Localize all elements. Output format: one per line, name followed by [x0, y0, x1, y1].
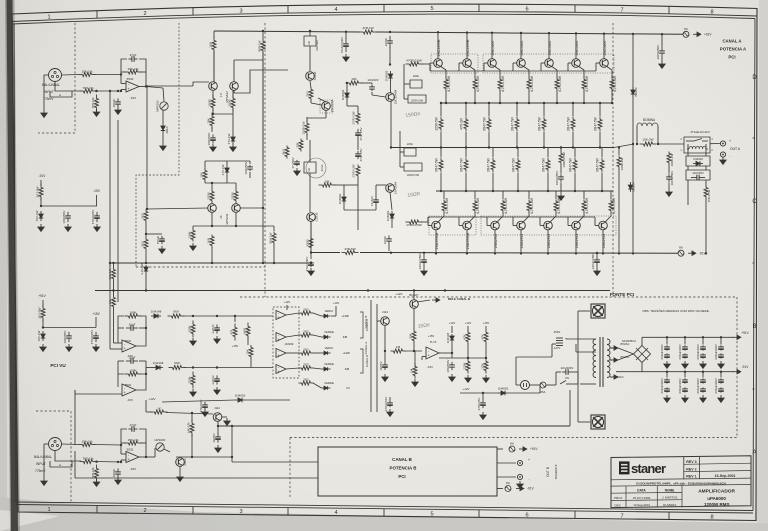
svg-text:1N4148: 1N4148	[446, 332, 450, 343]
diode 1N4002	[235, 399, 238, 401]
svg-text:AMPLIFICADOR: AMPLIFICADOR	[698, 488, 735, 494]
transistor 2SA1943 output PNP 6	[583, 212, 585, 216]
capacitor 47uF 25V	[357, 129, 359, 133]
svg-text:uPA6000: uPA6000	[707, 496, 726, 501]
svg-text:20KA: 20KA	[183, 458, 187, 465]
ground	[192, 338, 194, 341]
svg-text:220uF/250V: 220uF/250V	[418, 253, 422, 269]
wire vu B in	[74, 390, 76, 394]
svg-text:0R47-5W: 0R47-5W	[594, 117, 598, 130]
svg-text:4,7R-0,5W: 4,7R-0,5W	[476, 75, 480, 92]
input A PCI dashed box	[38, 23, 75, 133]
resistor 1M	[414, 364, 416, 367]
ground	[720, 395, 722, 398]
wire input hot B	[62, 443, 80, 446]
svg-text:OBS: TENSÕES MEDIDAS COM 250V: OBS: TENSÕES MEDIDAS COM 250V NA REDE.	[642, 308, 709, 313]
wire	[345, 32, 347, 39]
resistor 7K5-1%	[96, 95, 98, 99]
resistor 100K	[125, 373, 129, 375]
svg-text:100K: 100K	[188, 324, 192, 332]
svg-text:TL74: TL74	[430, 340, 437, 344]
wire input cold	[55, 82, 81, 92]
svg-text:+12V: +12V	[462, 387, 469, 391]
capacitor	[684, 387, 686, 389]
capacitor 220n/250V	[661, 43, 663, 51]
resistor 1K8	[211, 235, 213, 237]
svg-text:5: 5	[430, 511, 433, 517]
wire PNP base bus	[428, 216, 595, 218]
wire	[361, 82, 372, 84]
wire	[205, 160, 250, 162]
svg-text:CANAL B: CANAL B	[365, 355, 369, 367]
feedback box wire B	[121, 429, 127, 445]
svg-text:2 X: 2 X	[219, 93, 223, 97]
capacitor 220uF/250V	[423, 254, 425, 260]
diode BK954	[630, 182, 632, 185]
svg-text:0V: 0V	[346, 386, 350, 390]
grid tick right	[753, 388, 755, 390]
wire emitters	[212, 90, 214, 98]
wire VU feed B	[74, 390, 76, 445]
diode 1N4002	[498, 392, 501, 394]
resistor 470R-0,5W	[406, 63, 410, 65]
resistor 14K-1%	[113, 268, 115, 270]
resistor 2K2	[299, 352, 302, 354]
resistor 10K	[346, 82, 350, 84]
svg-text:+15V: +15V	[483, 321, 490, 325]
wire	[145, 445, 147, 457]
wire bc327	[413, 291, 415, 301]
svg-text:4,7R-0,5W: 4,7R-0,5W	[501, 75, 505, 92]
wire	[583, 191, 585, 199]
ground	[296, 168, 298, 171]
op-amp	[426, 347, 439, 359]
svg-text:8K8-1W: 8K8-1W	[258, 40, 262, 51]
capacitor	[720, 353, 722, 355]
svg-text:PCI: PCI	[728, 55, 735, 60]
resistor	[572, 117, 574, 120]
dashed separator right vertical	[736, 297, 738, 438]
wire	[313, 313, 322, 316]
wire	[139, 429, 146, 445]
wire base	[484, 62, 488, 64]
capacitor 100n/50V relay	[686, 170, 710, 180]
ground	[519, 481, 521, 484]
LED	[324, 386, 328, 390]
svg-text:47R-5W: 47R-5W	[344, 247, 355, 251]
wire	[482, 393, 484, 400]
capacitor 16v63V	[375, 196, 377, 200]
svg-text:2K: 2K	[219, 215, 223, 218]
resistor	[445, 78, 447, 80]
wire	[43, 327, 96, 329]
transistor	[232, 204, 241, 213]
LED	[324, 335, 328, 339]
svg-text:6K8: 6K8	[243, 328, 247, 334]
resistor 470R-0,5W	[406, 221, 410, 223]
terminal	[517, 474, 522, 479]
svg-text:BAL/UNBAL: BAL/UNBAL	[34, 455, 52, 459]
transistor 2SA1943 output PNP 4	[528, 212, 530, 216]
svg-text:2K2: 2K2	[303, 307, 309, 311]
svg-text:4,7R-0,5W: 4,7R-0,5W	[558, 75, 562, 92]
svg-text:1u/63V: 1u/63V	[211, 375, 215, 385]
capacitor	[684, 345, 686, 347]
resistor 7K5-1%	[80, 90, 84, 92]
ground	[96, 109, 98, 112]
wire	[113, 308, 115, 343]
svg-text:ON: ON	[565, 376, 569, 380]
wire +12V out	[460, 392, 498, 394]
svg-text:+15V: +15V	[428, 334, 435, 338]
svg-text:5532: 5532	[125, 339, 131, 343]
wire long y426	[218, 425, 570, 427]
wire	[286, 305, 288, 310]
wire	[528, 90, 530, 103]
resistor	[502, 200, 504, 202]
svg-text:15V-1W: 15V-1W	[37, 330, 41, 341]
wire	[113, 263, 115, 268]
wire op-amp inputs B	[120, 445, 122, 454]
svg-text:+91V: +91V	[704, 33, 712, 37]
capacitor	[702, 353, 704, 355]
svg-text:A1930: A1930	[313, 71, 317, 80]
svg-text:100R-2W: 100R-2W	[620, 157, 624, 170]
wire	[502, 191, 504, 199]
capacitor 100n/50V	[68, 332, 70, 336]
svg-text:1N4003: 1N4003	[385, 70, 389, 81]
svg-text:1N4148: 1N4148	[151, 309, 162, 313]
wire collector 2SC5200	[575, 33, 577, 58]
resistor	[547, 158, 549, 161]
resistor	[465, 117, 467, 120]
diode 1N4148	[451, 334, 453, 336]
capacitor 470(H)25V	[96, 212, 98, 216]
svg-text:8: 8	[710, 515, 713, 521]
resistor 1K	[113, 296, 115, 298]
svg-text:15K-1%: 15K-1%	[81, 439, 92, 443]
transistor 2SA1930B output PNP 2	[474, 212, 476, 216]
wire	[176, 456, 232, 458]
power arrow	[733, 336, 737, 338]
wire	[313, 352, 322, 354]
svg-text:2K7-5W: 2K7-5W	[38, 307, 42, 318]
svg-text:100n/50V: 100n/50V	[692, 171, 704, 175]
power arrow -91V	[516, 488, 520, 490]
svg-text:2K2: 2K2	[141, 241, 145, 247]
wire	[465, 103, 467, 116]
svg-text:1u/63V: 1u/63V	[211, 324, 215, 334]
capacitor 47pF	[128, 58, 132, 60]
amp PCI dashed separator	[264, 23, 266, 297]
svg-text:2SA1930B: 2SA1930B	[466, 232, 470, 249]
svg-text:6: 6	[525, 6, 528, 12]
input PCI dashed boundary	[136, 23, 179, 267]
wire	[390, 192, 392, 210]
svg-text:7: 7	[620, 7, 623, 13]
svg-text:BAL/UNBAL: BAL/UNBAL	[42, 83, 60, 87]
svg-text:4700uF/100V: 4700uF/100V	[696, 378, 700, 394]
wire	[217, 421, 219, 434]
svg-text:47pF: 47pF	[130, 423, 137, 427]
ground	[179, 474, 181, 477]
resistor 10K	[250, 346, 252, 348]
svg-text:10n/63V: 10n/63V	[367, 78, 378, 82]
svg-text:390R: 390R	[306, 239, 310, 247]
wire feedback left	[110, 262, 311, 264]
wire	[722, 156, 724, 159]
transistor	[434, 59, 443, 68]
title block line table row2	[611, 499, 682, 502]
wire	[309, 31, 311, 36]
diode 1N4148	[151, 315, 154, 317]
power arrow	[610, 359, 614, 361]
svg-text:2K2: 2K2	[303, 329, 309, 333]
wire	[474, 90, 476, 103]
resistor 2K7-5W	[42, 305, 44, 309]
grid tick top	[383, 4, 385, 11]
svg-text:150uF: 150uF	[156, 236, 160, 245]
svg-text:775mV: 775mV	[43, 97, 54, 101]
diode 47V-1W	[226, 166, 228, 168]
svg-text:1N4002: 1N4002	[341, 89, 345, 100]
wire base bias	[234, 70, 288, 93]
svg-text:+14dB: +14dB	[341, 315, 349, 318]
svg-text:PCI: PCI	[398, 474, 405, 479]
capacitor	[684, 378, 686, 380]
svg-text:J. MARTOS: J. MARTOS	[662, 496, 677, 500]
svg-text:PCI VU: PCI VU	[50, 363, 66, 368]
resistor 2K2	[145, 210, 147, 212]
svg-text:+: +	[729, 139, 731, 143]
wire	[465, 148, 467, 158]
resistor 33K	[413, 330, 415, 332]
svg-text:100n/50V: 100n/50V	[63, 331, 67, 344]
svg-text:100K: 100K	[188, 375, 192, 383]
wire	[583, 90, 585, 103]
svg-text:62K: 62K	[463, 333, 467, 339]
wire	[467, 343, 469, 358]
svg-text:OFFSET: OFFSET	[315, 39, 319, 50]
svg-text:J112: J112	[214, 406, 220, 410]
wire	[488, 103, 490, 116]
transistor 20KA	[176, 458, 185, 467]
capacitor 470(H)63V	[389, 401, 391, 403]
svg-text:1M: 1M	[410, 368, 414, 373]
wire	[451, 342, 453, 358]
title block line rev3	[684, 463, 751, 464]
wire	[232, 461, 318, 463]
svg-text:1K8: 1K8	[209, 42, 213, 48]
diode 15V-1W	[40, 211, 42, 214]
svg-text:0R47-5W: 0R47-5W	[567, 117, 571, 130]
svg-text:10K: 10K	[351, 77, 357, 81]
capacitor 1u/63V	[216, 375, 218, 379]
wire	[309, 140, 311, 162]
capacitor 100n/50V	[212, 134, 214, 138]
svg-text:+12V: +12V	[284, 300, 291, 304]
wire	[400, 151, 404, 153]
wire	[145, 222, 147, 238]
wire tail	[212, 108, 214, 114]
wire	[465, 173, 467, 191]
svg-text:0R47-5W: 0R47-5W	[487, 158, 491, 171]
svg-text:REV 3: REV 3	[686, 460, 696, 464]
ground	[212, 144, 214, 147]
svg-text:2SC3246B: 2SC3246B	[394, 90, 398, 105]
svg-text:2SA1984: 2SA1984	[394, 182, 398, 195]
transistor	[517, 221, 526, 230]
capacitor 4700uF/100V top 2	[684, 337, 686, 344]
ground	[117, 107, 119, 110]
resistor	[601, 158, 603, 161]
offset trim box 1K	[304, 36, 316, 46]
power arrow	[733, 371, 737, 373]
grid tick bottom	[383, 509, 385, 517]
grid tick top	[668, 6, 670, 14]
ground	[43, 110, 45, 113]
wire	[313, 368, 322, 369]
resistor	[357, 112, 359, 114]
wire emitter	[552, 66, 557, 70]
svg-text:2K2: 2K2	[141, 213, 145, 219]
wire	[298, 334, 300, 336]
svg-text:47K: 47K	[230, 328, 234, 334]
capacitor 220pF	[389, 36, 391, 41]
resistor	[357, 165, 359, 167]
wire	[95, 90, 121, 92]
ground	[42, 344, 44, 347]
svg-text:10K: 10K	[246, 348, 250, 354]
wire	[44, 443, 49, 445]
svg-text:775mV: 775mV	[35, 469, 46, 473]
svg-text:SPEAKER B: SPEAKER B	[554, 464, 558, 479]
ground	[485, 375, 487, 378]
svg-text:POTENCIA B: POTENCIA B	[390, 466, 417, 471]
right inner frame line	[753, 19, 755, 511]
svg-text:5532: 5532	[125, 383, 131, 387]
transistor 2SC5048	[322, 102, 331, 111]
svg-text:+: +	[528, 458, 530, 462]
wire	[249, 172, 251, 178]
wire	[121, 71, 126, 73]
svg-text:47uF 25V: 47uF 25V	[359, 127, 363, 140]
capacitor 47uF 25V	[357, 151, 359, 154]
resistor 10K	[204, 169, 206, 171]
resistor 2K2	[299, 334, 302, 336]
canal B dashed region	[289, 438, 291, 498]
svg-text:15K-1%: 15K-1%	[127, 67, 138, 71]
wire	[136, 374, 146, 390]
wire	[232, 114, 234, 135]
transistor	[599, 221, 608, 230]
svg-text:47R-1W: 47R-1W	[362, 26, 373, 30]
wire output bus	[391, 147, 614, 149]
relay contact	[686, 140, 694, 142]
wire	[183, 315, 273, 317]
dashed box output pair B	[429, 216, 476, 235]
svg-text:22n/400V: 22n/400V	[561, 366, 574, 370]
title block line table header	[611, 491, 682, 494]
resistor	[583, 78, 585, 80]
resistor 100R-1W	[306, 120, 308, 124]
ground	[40, 224, 42, 227]
wire	[508, 392, 540, 394]
LM339 dashed box	[273, 307, 299, 378]
wire	[298, 352, 300, 354]
resistor 8K8-1W	[262, 38, 264, 42]
grid tick bottom	[574, 511, 576, 519]
resistor	[465, 158, 467, 161]
voltage selector pins	[556, 337, 563, 339]
ground	[684, 395, 686, 398]
capacitor 4700uF/100V bottom 1	[666, 372, 668, 378]
svg-text:8A: 8A	[506, 481, 510, 485]
svg-text:100n/250V: 100n/250V	[555, 171, 559, 186]
ground	[226, 418, 228, 421]
svg-text:+15V: +15V	[232, 344, 239, 348]
wire base	[568, 62, 572, 64]
wire lm out d	[286, 368, 299, 369]
capacitor 4700uF/100V bottom 3	[702, 372, 704, 378]
svg-text:8: 8	[710, 9, 713, 15]
wire	[118, 316, 124, 343]
wire	[96, 195, 98, 206]
wire	[636, 126, 638, 144]
resistor	[556, 78, 558, 80]
transistor C2536	[307, 213, 316, 222]
diode 1N4002	[343, 194, 345, 197]
svg-text:4700uF/100V: 4700uF/100V	[714, 344, 718, 360]
svg-text:+12V: +12V	[449, 321, 456, 325]
wire	[601, 148, 603, 158]
transistor 2SC5048 driver	[320, 100, 333, 113]
resistor	[528, 78, 530, 80]
ground	[482, 412, 484, 415]
resistor	[611, 78, 613, 80]
diode 15V-1W	[42, 331, 44, 334]
transistor	[463, 221, 472, 230]
wire	[212, 113, 214, 115]
svg-text:100n/250V: 100n/250V	[670, 171, 674, 186]
capacitor	[702, 345, 704, 347]
ground	[451, 374, 453, 377]
svg-text:1K: 1K	[307, 41, 311, 45]
svg-text:220n/250V: 220n/250V	[656, 45, 660, 60]
wire	[497, 462, 516, 464]
op-amp	[276, 333, 286, 342]
junction	[120, 444, 122, 446]
capacitor 100pF	[117, 98, 119, 102]
transistor 2SA1943 output PNP 5	[555, 212, 557, 216]
svg-text:4: 4	[334, 510, 337, 516]
top reference band line	[12, 12, 757, 22]
wire collector 2SC5200	[491, 33, 493, 59]
svg-text:CANAL B: CANAL B	[392, 457, 412, 462]
resistor 2K2	[310, 88, 312, 90]
resistor 10K-2W	[640, 143, 644, 145]
svg-text:+12V: +12V	[148, 397, 155, 401]
wire lm out b	[286, 335, 299, 337]
capacitor	[666, 387, 668, 389]
bias generator 1K box	[304, 162, 316, 173]
resistor 2K2	[145, 238, 147, 240]
resistor 6K8	[168, 315, 172, 317]
resistor 100K	[125, 315, 129, 317]
title block divider col1	[625, 486, 627, 507]
svg-text:OLIVEIRA: OLIVEIRA	[663, 503, 676, 507]
transistor	[213, 413, 222, 422]
